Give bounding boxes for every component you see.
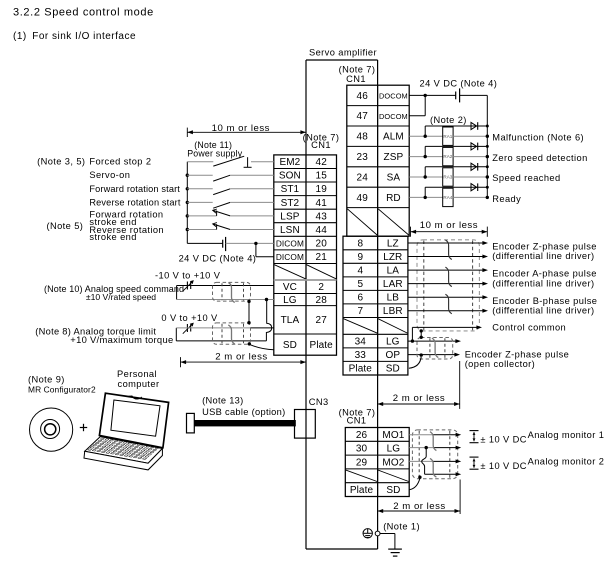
diode freewheel for ZSP — [425, 143, 489, 157]
svg-text:LG: LG — [386, 337, 400, 348]
svg-text:Plate: Plate — [310, 340, 334, 351]
svg-text:49: 49 — [357, 193, 369, 204]
wire VC to pin 2 — [177, 285, 274, 287]
svg-text:8: 8 — [357, 238, 363, 249]
svg-text:SD: SD — [283, 340, 297, 351]
svg-text:9: 9 — [357, 252, 363, 263]
svg-text:(differential line driver): (differential line driver) — [492, 306, 594, 316]
svg-text:Forward rotation start: Forward rotation start — [89, 184, 180, 194]
shield link wire between pairs — [247, 300, 250, 325]
switch ST2 — [186, 201, 274, 209]
svg-text:VC: VC — [283, 282, 297, 293]
svg-text:-10 V to +10 V: -10 V to +10 V — [155, 271, 221, 281]
svg-text:Zero speed detection: Zero speed detection — [492, 153, 587, 163]
input supply bus wire — [186, 162, 188, 244]
wire LG monitor — [409, 446, 461, 450]
svg-text:(Note 5): (Note 5) — [47, 221, 84, 231]
connector CN3 box — [295, 410, 316, 439]
svg-text:2 m or less: 2 m or less — [393, 393, 445, 404]
svg-text:CN1: CN1 — [311, 140, 331, 150]
wire encoder LBR — [408, 309, 488, 313]
svg-text:6: 6 — [357, 293, 363, 304]
svg-text:RA2: RA2 — [443, 154, 452, 159]
svg-text:USB cable (option): USB cable (option) — [202, 407, 285, 417]
svg-text:(Note 1): (Note 1) — [383, 522, 420, 532]
connector table CN1 encoder pins 8/9/4/5/6/7/34/33/Plate — [343, 236, 408, 375]
svg-text:SON: SON — [279, 171, 301, 182]
svg-text:RA3: RA3 — [443, 175, 452, 180]
svg-text:26: 26 — [356, 430, 368, 441]
svg-text:28: 28 — [316, 295, 328, 306]
svg-text:(Note 13): (Note 13) — [202, 396, 243, 406]
twisted pair symbols encoder — [445, 240, 451, 314]
svg-text:ALM: ALM — [383, 132, 404, 143]
switch EM2 forced stop 2 — [187, 156, 273, 167]
svg-text:4: 4 — [357, 266, 363, 277]
relay output ZSP — [409, 147, 489, 165]
ground symbol — [380, 534, 402, 557]
svg-text:Encoder Z-phase pulse: Encoder Z-phase pulse — [492, 241, 597, 251]
terminal circle on frame — [375, 531, 380, 536]
plus sign — [80, 424, 87, 431]
svg-text:DOCOM: DOCOM — [379, 112, 408, 121]
svg-text:5: 5 — [357, 279, 363, 290]
shield link big box to small box — [420, 329, 423, 339]
svg-text:48: 48 — [357, 132, 369, 143]
twisted pair symbols monitor — [430, 432, 436, 478]
dimension 2 m or less (analog input) — [181, 351, 307, 367]
range symbol plus-minus 10V monitor 1 — [470, 431, 479, 443]
svg-text:24 V DC (Note 4): 24 V DC (Note 4) — [179, 253, 257, 263]
shield box encoder cable (inner lines) — [424, 241, 473, 331]
svg-text:23: 23 — [357, 152, 369, 163]
wire MO2 — [409, 459, 461, 463]
svg-text:2: 2 — [318, 282, 324, 293]
svg-text:(Note 9): (Note 9) — [28, 375, 65, 385]
svg-text:SD: SD — [386, 364, 400, 375]
svg-text:Encoder A-phase pulse: Encoder A-phase pulse — [492, 269, 597, 279]
svg-text:± 10 V DC: ± 10 V DC — [480, 435, 526, 445]
svg-text:27: 27 — [316, 315, 328, 326]
svg-text:SD: SD — [386, 485, 400, 496]
svg-text:LG: LG — [387, 444, 401, 455]
diode freewheel for RD — [425, 183, 489, 197]
svg-text:Power supply: Power supply — [187, 148, 243, 158]
svg-text:RA4: RA4 — [443, 195, 452, 200]
limit switch LSN — [186, 223, 274, 232]
svg-text:LBR: LBR — [383, 306, 403, 317]
svg-text:stroke end: stroke end — [89, 232, 136, 242]
laptop keyboard keys — [88, 438, 160, 459]
svg-text:Plate: Plate — [349, 364, 373, 375]
svg-text:(differential line driver): (differential line driver) — [492, 251, 594, 261]
svg-text:(Note 3, 5): (Note 3, 5) — [37, 157, 85, 167]
svg-text:(1) For sink I/O interface: (1) For sink I/O interface — [13, 31, 136, 42]
svg-text:DICOM: DICOM — [276, 239, 304, 249]
wire encoder LB — [408, 295, 488, 299]
svg-text:computer: computer — [118, 379, 160, 389]
svg-text:MO1: MO1 — [382, 430, 404, 441]
svg-text:DOCOM: DOCOM — [379, 91, 408, 100]
range symbol plus-minus 10V monitor 2 — [470, 457, 479, 469]
svg-text:Encoder Z-phase pulse: Encoder Z-phase pulse — [465, 349, 570, 359]
svg-text:47: 47 — [357, 111, 369, 122]
svg-text:ST1: ST1 — [281, 184, 300, 195]
wire LG return monitor — [422, 448, 462, 477]
svg-text:7: 7 — [357, 306, 363, 317]
svg-text:Forced stop 2: Forced stop 2 — [89, 157, 151, 167]
svg-text:+10 V/maximum torque: +10 V/maximum torque — [70, 334, 173, 345]
diode freewheel for ALM — [425, 122, 489, 136]
svg-text:Malfunction (Note 6): Malfunction (Note 6) — [492, 132, 584, 142]
servo amplifier enclosure box — [306, 60, 378, 549]
svg-text:20: 20 — [316, 239, 328, 250]
svg-text:ZSP: ZSP — [384, 152, 404, 163]
dimension 2 m or less (encoder) — [378, 361, 460, 409]
wire MO1 — [409, 433, 461, 437]
limit switch LSP — [186, 209, 274, 218]
shielded twisted pair (VC/LG) — [213, 282, 251, 302]
svg-text:24 V DC (Note 4): 24 V DC (Note 4) — [420, 79, 498, 89]
svg-text:Personal: Personal — [117, 369, 157, 379]
connector table CN1 input pins EM2..SD — [274, 155, 337, 355]
svg-text:Servo-on: Servo-on — [89, 170, 130, 180]
wire encoder LZR — [408, 255, 488, 259]
svg-text:Control common: Control common — [492, 322, 566, 332]
svg-text:46: 46 — [357, 91, 369, 102]
svg-text:LAR: LAR — [383, 279, 403, 290]
svg-text:MO2: MO2 — [382, 457, 404, 468]
protective earth terminal — [363, 529, 372, 538]
svg-text:CN1: CN1 — [346, 74, 366, 84]
svg-text:15: 15 — [316, 171, 328, 182]
shield wire to SD plate — [248, 342, 274, 350]
shield wire to SD plate (encoder) — [409, 353, 423, 368]
relay output RD — [409, 188, 489, 206]
svg-text:CN1: CN1 — [347, 416, 367, 426]
svg-text:44: 44 — [316, 225, 328, 236]
wire encoder OP open collector — [408, 353, 460, 357]
svg-text:21: 21 — [316, 252, 328, 263]
svg-text:Ready: Ready — [492, 194, 521, 204]
svg-text:19: 19 — [316, 184, 328, 195]
svg-text:Servo amplifier: Servo amplifier — [309, 48, 377, 58]
svg-text:(differential line driver): (differential line driver) — [492, 278, 594, 288]
dimension 2 m or less (monitor) — [378, 480, 461, 515]
connector table CN1 output pins 46/47/48/23/24/49 — [347, 85, 409, 236]
svg-text:DICOM: DICOM — [276, 252, 304, 262]
svg-text:±10 V/rated speed: ±10 V/rated speed — [86, 292, 156, 302]
svg-text:RA1: RA1 — [443, 134, 452, 139]
wire DOCOM 46 with battery — [409, 88, 487, 102]
wire encoder LAR — [408, 282, 488, 286]
svg-text:Analog monitor 1: Analog monitor 1 — [528, 430, 605, 440]
input labels — [37, 157, 181, 243]
relay output ALM — [409, 127, 489, 145]
wire LG return (speed pot) — [177, 298, 274, 301]
svg-text:(open collector): (open collector) — [465, 359, 535, 369]
switch SON — [186, 174, 274, 182]
relay output SA — [409, 168, 489, 186]
svg-text:43: 43 — [316, 211, 328, 222]
svg-text:24: 24 — [357, 172, 369, 183]
svg-text:LZR: LZR — [383, 252, 402, 263]
wire control common from LG 34 — [408, 325, 482, 343]
wire encoder LZ — [408, 241, 488, 245]
svg-text:LG: LG — [283, 295, 297, 306]
svg-text:2 m or less: 2 m or less — [215, 351, 267, 362]
svg-text:ST2: ST2 — [281, 198, 300, 209]
switch ST1 — [186, 187, 274, 195]
wire DICOM branch to pin 21 — [254, 242, 274, 257]
svg-text:SA: SA — [387, 172, 401, 183]
svg-text:TLA: TLA — [281, 315, 300, 326]
svg-text:± 10 V DC: ± 10 V DC — [480, 461, 526, 471]
shield box analog monitor — [412, 430, 457, 479]
svg-text:41: 41 — [316, 198, 328, 209]
svg-text:MR Configurator2: MR Configurator2 — [28, 384, 96, 394]
shield box open collector pair — [417, 338, 453, 360]
svg-text:EM2: EM2 — [279, 157, 300, 168]
connector table CN1 monitor pins 26/30/29/Plate — [345, 428, 409, 497]
svg-text:0 V to +10 V: 0 V to +10 V — [161, 313, 218, 323]
diode freewheel for SA — [425, 163, 489, 177]
svg-text:Reverse rotation start: Reverse rotation start — [89, 197, 180, 207]
wire TLA to pin 27 — [176, 327, 273, 329]
svg-text:(Note 2): (Note 2) — [430, 115, 467, 125]
wire DOCOM 47 join — [409, 95, 425, 115]
dimension 10 m or less (output side) — [411, 220, 488, 237]
svg-text:LSN: LSN — [280, 225, 300, 236]
USB cable — [187, 413, 296, 433]
output supply bus — [486, 95, 488, 197]
laptop computer icon — [84, 393, 169, 470]
CD-ROM disc icon — [29, 408, 72, 451]
svg-text:LZ: LZ — [387, 238, 399, 249]
shielded twisted pair (TLA) — [213, 323, 251, 344]
svg-text:30: 30 — [356, 444, 368, 455]
potentiometer TLA analog torque limit — [176, 323, 194, 341]
svg-text:RD: RD — [386, 193, 401, 204]
wire encoder LA — [408, 268, 488, 272]
svg-text:34: 34 — [355, 337, 367, 348]
svg-text:2 m or less: 2 m or less — [393, 501, 445, 512]
svg-text:LB: LB — [387, 293, 400, 304]
svg-text:Analog monitor 2: Analog monitor 2 — [528, 456, 605, 466]
shield wire to SD plate (monitor) — [410, 476, 422, 490]
svg-text:29: 29 — [356, 457, 368, 468]
battery 24 V DC (input common) — [187, 237, 273, 251]
wire TLA return to LG junction — [176, 300, 271, 341]
svg-text:LA: LA — [387, 266, 400, 277]
svg-text:OP: OP — [385, 350, 400, 361]
svg-text:3.2.2 Speed control mode: 3.2.2 Speed control mode — [13, 7, 154, 19]
potentiometer VC analog speed command — [177, 280, 194, 299]
dimension 10 m or less (input side) — [187, 123, 306, 137]
svg-text:10 m or less: 10 m or less — [420, 220, 478, 231]
svg-text:42: 42 — [316, 157, 328, 168]
svg-text:LSP: LSP — [280, 211, 299, 222]
svg-text:Speed reached: Speed reached — [492, 173, 560, 183]
svg-text:Encoder B-phase pulse: Encoder B-phase pulse — [492, 296, 597, 306]
svg-text:CN3: CN3 — [309, 397, 329, 407]
shield box encoder cable (outer) — [417, 240, 479, 331]
svg-text:Plate: Plate — [350, 485, 374, 496]
svg-text:33: 33 — [355, 350, 367, 361]
